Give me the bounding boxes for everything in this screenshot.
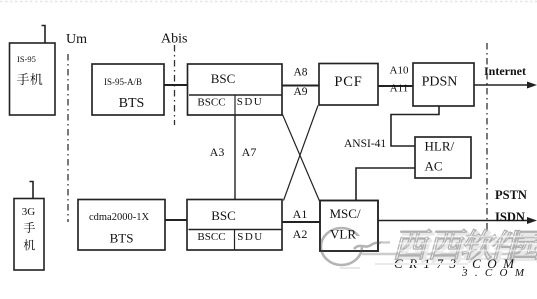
svg-text:PSTN: PSTN [495,188,527,202]
watermark logo circle [321,228,362,265]
svg-text:Internet: Internet [484,64,526,78]
svg-text:BSC: BSC [211,208,236,223]
label 机 (3G handset) [24,239,35,250]
svg-text:VLR: VLR [330,227,356,242]
BSC2 internal divider vertical [234,230,236,251]
svg-text:A3: A3 [210,145,225,159]
svg-text:cdma2000-1X: cdma2000-1X [89,212,149,223]
wire BTS2 to BSC2 [165,219,187,221]
svg-text:A2: A2 [293,227,308,241]
svg-text:A10: A10 [390,65,409,77]
svg-text:HLR/: HLR/ [425,139,455,154]
svg-text:A9: A9 [293,86,307,98]
svg-text:ISDN: ISDN [495,210,525,224]
antenna of IS-95 handset [42,26,46,44]
label 手 (3G handset) [24,222,35,233]
wire A3/A7: BSC1 to BSC2 vertical [234,115,236,199]
right boundary dash-dot line [486,43,488,262]
watermark underline swoosh [362,253,536,255]
svg-text:MSC/: MSC/ [330,206,361,221]
node: BTS2 box (cdma2000-1X) [78,200,165,251]
node: MSC/VLR box redrawn over watermark [320,201,378,252]
Abis interface dash-dot line [174,45,176,125]
BSC1 internal divider vertical [234,95,236,115]
svg-text:BTS: BTS [119,96,145,111]
wire/arrow MSC to PSTN/ISDN [378,220,530,222]
wire BTS1 to BSC1 [164,84,188,86]
svg-text:A11: A11 [390,83,409,95]
BSC2 internal divider horizontal [189,229,283,231]
svg-text:BTS: BTS [110,231,134,246]
wire PDSN to HLR (ANSI-41) [391,106,439,146]
svg-text:A1: A1 [293,207,308,221]
wire A10/A11: PCF to PDSN [378,85,413,87]
wire A1/A2: BSC2 to MSC [282,221,320,223]
svg-text:A8: A8 [293,67,307,79]
wire diagonal BSC1 to MSC [283,115,320,202]
node: BSC1 box [188,64,283,115]
Um interface dash-dot line [67,54,69,222]
svg-text:3G: 3G [22,206,36,218]
antenna of 3G handset [30,182,34,199]
BSC1 internal divider horizontal [189,94,282,96]
wire A8/A9: BSC1 to PCF [282,85,319,87]
svg-text:BSCC: BSCC [197,231,225,243]
svg-text:PCF: PCF [334,74,362,90]
svg-text:BSCC: BSCC [197,97,225,109]
svg-text:BSC: BSC [211,71,236,86]
label 手机 (handset) [17,73,29,85]
node: BSC2 box [187,200,282,251]
watermark speed-line stripes [381,237,537,251]
node: MSC/VLR box [320,201,378,252]
node: BTS1 box (IS-95 A/B) [92,64,164,115]
svg-text:SDU: SDU [237,231,264,243]
svg-text:IS-95-A/B: IS-95-A/B [104,77,142,87]
node: IS-95 handset box [10,43,56,115]
svg-text:AC: AC [425,159,443,174]
svg-text:Abis: Abis [161,32,187,47]
node: 3G handset box [14,199,44,271]
node: HLR/AC box [415,137,471,178]
svg-text:Um: Um [66,32,87,47]
node: PCF box [319,64,378,106]
svg-text:IS-95: IS-95 [17,54,36,64]
watermark text 西西软件园 [392,229,537,262]
top dotted border [0,1,537,3]
wire diagonal PCF to BSC2 [284,106,319,201]
svg-text:SDU: SDU [237,96,264,108]
svg-text:ANSI-41: ANSI-41 [344,138,386,150]
svg-text:PDSN: PDSN [422,75,458,90]
node: PDSN box [413,63,474,106]
wire MSC to HLR [356,168,415,200]
wire/arrow PDSN to Internet [474,84,530,86]
svg-text:A7: A7 [242,145,257,159]
